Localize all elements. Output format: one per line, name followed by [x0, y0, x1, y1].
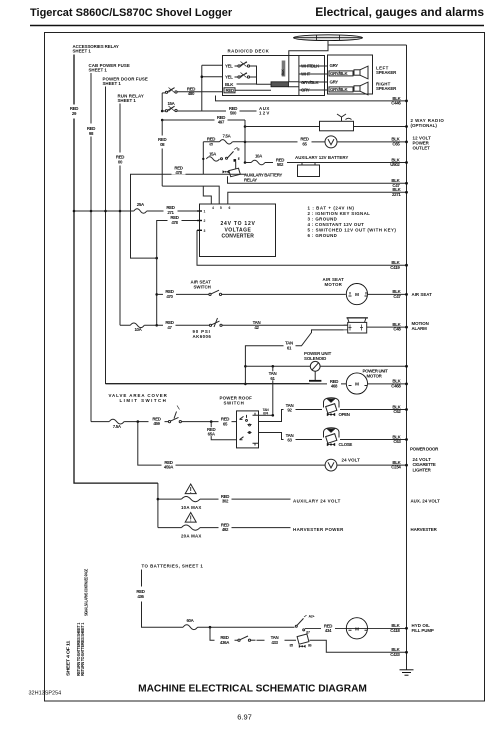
node RED 502 label [273, 158, 287, 167]
wire RED 436A switch branch [210, 627, 296, 640]
wire converter pin3 ground to bus BLK C419 [197, 230, 407, 265]
svg-text:87: 87 [306, 631, 310, 635]
svg-text:HARVESTER POWER: HARVESTER POWER [293, 527, 344, 532]
radio switch 1 [235, 62, 250, 68]
svg-text:492: 492 [222, 527, 229, 532]
svg-text:433: 433 [271, 640, 278, 645]
svg-text:GRY/BLK: GRY/BLK [330, 71, 349, 76]
power roof switch box [237, 411, 259, 448]
fuse 10A MAX [182, 497, 201, 502]
svg-text:1: 1 [204, 210, 206, 214]
wire motion alarm row [120, 324, 348, 326]
left speaker symbol [354, 66, 368, 79]
svg-text:12V: 12V [259, 111, 269, 116]
svg-text:ALARM: ALARM [412, 326, 428, 331]
switch row 2 (15A) [162, 101, 226, 112]
svg-text:15A: 15A [209, 152, 217, 157]
wire radio to speaker box 4 wires [289, 82, 299, 87]
node RED 500 label [227, 106, 240, 115]
svg-text:302: 302 [222, 499, 229, 504]
svg-text:436: 436 [137, 594, 144, 599]
svg-text:C48: C48 [393, 327, 401, 332]
power unit motor [346, 373, 367, 394]
switch row 1 (5A RED 480) [162, 88, 222, 94]
wire RED 468 row power unit motor [106, 383, 407, 385]
radio/cd deck box [223, 56, 325, 96]
svg-text:1 : BAT + (24V IN): 1 : BAT + (24V IN) [308, 206, 355, 211]
svg-text:470: 470 [166, 294, 173, 299]
svg-text:25A: 25A [137, 202, 145, 207]
close solenoid [324, 428, 340, 446]
fuse 20A MAX [182, 525, 201, 530]
wire power unit solenoid row [245, 365, 406, 367]
svg-text:GRY/BLK: GRY/BLK [330, 87, 349, 92]
svg-text:Tigercat S860C/LS870C Shovel L: Tigercat S860C/LS870C Shovel Logger [30, 7, 233, 19]
svg-text:480: 480 [188, 91, 195, 96]
wire 24V cigarette lighter row [138, 422, 407, 466]
svg-text:98: 98 [89, 131, 94, 136]
svg-text:RELAY: RELAY [244, 177, 257, 182]
svg-text:436A: 436A [220, 640, 230, 645]
node RED 478 label (pin2 side) [168, 216, 182, 225]
svg-text:459A: 459A [164, 465, 174, 470]
svg-text:C418: C418 [390, 628, 400, 633]
wire 2-way radio to bus [354, 126, 407, 128]
svg-text:32H13SP254: 32H13SP254 [29, 691, 62, 697]
converter left pin numbers 1 2 3 [197, 211, 202, 230]
svg-text:C419: C419 [390, 265, 400, 270]
header rule [30, 25, 484, 27]
svg-text:00: 00 [118, 160, 123, 165]
svg-text:MACHINE ELECTRICAL SCHEMATIC D: MACHINE ELECTRICAL SCHEMATIC DIAGRAM [138, 684, 367, 695]
wire roof switch close branch [259, 433, 407, 440]
svg-text:OUTLET: OUTLET [413, 146, 431, 151]
svg-text:SHEET 4 OF 11: SHEET 4 OF 11 [66, 640, 71, 676]
fuse 10A aux battery [251, 160, 265, 165]
wire RED 478 vertical to pin2 [157, 221, 200, 259]
svg-text:C433: C433 [390, 652, 400, 657]
wire TAN 61 from motion row down [245, 330, 343, 384]
wire relay coil to bus BLK C433 [310, 640, 407, 652]
pump switch [238, 636, 256, 641]
svg-text:5: 5 [220, 206, 222, 210]
wire RED 500 to AUX 12V [240, 110, 257, 112]
svg-text:C468: C468 [391, 384, 401, 389]
svg-text:RED: RED [207, 137, 215, 142]
radio switch 2 [235, 73, 250, 79]
svg-text:2 : IGNITION KEY SIGNAL: 2 : IGNITION KEY SIGNAL [308, 211, 371, 216]
svg-text:85: 85 [290, 643, 294, 647]
wire antenna feed to bus [328, 41, 407, 45]
svg-text:5 : SWITCHED 12V OUT (WITH KEY: 5 : SWITCHED 12V OUT (WITH KEY) [308, 228, 397, 233]
svg-text:RED: RED [226, 88, 234, 93]
valve limit switch [168, 406, 181, 423]
air seat switch [209, 290, 222, 295]
wire run relay RED 00 [119, 104, 121, 153]
open solenoid [324, 398, 340, 416]
fuse 10A motion [130, 323, 144, 328]
auxilary battery relay coil [223, 168, 241, 177]
svg-text:CONVERTER: CONVERTER [222, 234, 255, 240]
hyd oil fill pump motor [346, 618, 367, 639]
svg-text:29: 29 [72, 111, 77, 116]
svg-text:SHEET 1: SHEET 1 [118, 98, 137, 103]
svg-text:6 : GROUND: 6 : GROUND [308, 233, 337, 238]
wire converter outputs to radio feeder [162, 186, 219, 204]
svg-text:LIGHTER: LIGHTER [413, 467, 432, 472]
svg-text:6: 6 [229, 206, 231, 210]
svg-text:502: 502 [277, 162, 284, 167]
svg-text:10A: 10A [255, 153, 263, 158]
wire accessories relay vertical RED 29 [73, 55, 75, 105]
antenna [294, 35, 363, 41]
node junction dots row [73, 210, 76, 213]
wire RED 65A branch [211, 422, 236, 440]
svg-text:TO BATTERIES, SHEET 1: TO BATTERIES, SHEET 1 [142, 564, 204, 569]
hyd pump relay [295, 615, 406, 647]
svg-text:RETURN TO BATTERIES SHEET 1: RETURN TO BATTERIES SHEET 1 [80, 622, 85, 676]
svg-text:C47: C47 [392, 183, 400, 188]
wire YEL feeds from vertical 201 [202, 65, 223, 111]
node RED 65 label (roof) [219, 417, 232, 426]
cigarette lighter symbol [325, 459, 337, 471]
svg-text:POWER DOOR: POWER DOOR [410, 446, 439, 451]
wire TAN 61 vertical to roof switch [272, 366, 274, 415]
svg-text:2: 2 [204, 219, 206, 223]
wire cab power RED 98 [90, 73, 92, 124]
svg-text:61: 61 [287, 345, 292, 350]
svg-text:24 VOLT: 24 VOLT [342, 458, 361, 463]
2-way radio antenna mark [337, 114, 352, 121]
svg-text:24V TO 12V: 24V TO 12V [221, 221, 256, 227]
svg-text:10A: 10A [134, 327, 142, 332]
node RED 434 label [321, 624, 335, 633]
wire relay to bus BLK C47 [228, 176, 407, 183]
svg-text:(OPTIONAL): (OPTIONAL) [411, 123, 438, 128]
wire aux 24 volt feeder [157, 483, 159, 527]
air seat motor [346, 284, 367, 305]
node TAN 92 label [284, 403, 296, 412]
svg-text:4: 4 [212, 206, 214, 210]
wire radio internal to amp [235, 66, 271, 90]
svg-text:SWITCH: SWITCH [224, 401, 244, 406]
node RED 271 label [164, 206, 178, 215]
right speaker symbol [354, 82, 368, 95]
svg-text:U502: U502 [390, 162, 400, 167]
svg-text:65A: 65A [208, 432, 216, 437]
wire junction row to converter pin 1 [74, 210, 134, 212]
svg-text:SHEET 1: SHEET 1 [103, 81, 122, 86]
fuse 60A [183, 625, 197, 630]
wire harvester row [158, 527, 291, 529]
auxilary 12v battery symbol [298, 163, 320, 177]
svg-text:M: M [355, 626, 359, 631]
wire antenna into radio [289, 45, 328, 57]
svg-text:459: 459 [153, 421, 160, 426]
svg-text:A2+: A2+ [309, 614, 315, 618]
wire solenoid plunger [314, 371, 316, 381]
svg-text:AUXILARY 24 VOLT: AUXILARY 24 VOLT [293, 498, 341, 503]
wire battery feed RED 436 [142, 570, 295, 628]
svg-text:60A: 60A [186, 618, 194, 623]
pressure switch 90 PSI [209, 318, 222, 327]
svg-text:08: 08 [160, 142, 165, 147]
wire amp to antenna lead [288, 57, 290, 82]
radio input label RED boxed [224, 88, 235, 93]
2-way radio box [320, 121, 354, 131]
svg-text:VOLTAGE: VOLTAGE [225, 227, 252, 233]
warning triangle 1 [185, 484, 196, 494]
svg-text:468: 468 [331, 384, 338, 389]
radio antenna lead BLK vertical text [282, 61, 286, 77]
speaker label GRY/BLK 1 boxed [329, 71, 353, 76]
svg-text:3 : GROUND: 3 : GROUND [308, 217, 337, 222]
svg-text:497: 497 [218, 120, 225, 125]
svg-text:GRY: GRY [330, 80, 339, 85]
converter pin legend [308, 206, 397, 239]
wire air seat row RED 470 [157, 293, 407, 295]
wire vertical 156 down to air seat and motion rows [156, 258, 158, 325]
motion alarm device [344, 318, 368, 333]
speaker label GRY/BLK 2 boxed [329, 87, 353, 92]
svg-text:SHEET 1: SHEET 1 [73, 49, 92, 54]
svg-text:47: 47 [167, 325, 172, 330]
svg-text:AUXILARY 12V BATTERY: AUXILARY 12V BATTERY [295, 155, 348, 160]
node TAN 63 label [284, 433, 296, 442]
wire roof switch open branch [259, 410, 407, 422]
svg-text:2271: 2271 [392, 192, 401, 197]
svg-text:10A MAX: 10A MAX [181, 505, 201, 510]
svg-text:4 : CONSTANT 12V OUT: 4 : CONSTANT 12V OUT [308, 222, 365, 227]
svg-text:434: 434 [325, 628, 332, 633]
24V to 12V voltage converter box [200, 204, 276, 257]
svg-text:BLK: BLK [225, 82, 234, 87]
svg-text:CLOSE: CLOSE [339, 442, 353, 447]
speaker wiring box [328, 55, 373, 94]
svg-text:OPEN: OPEN [339, 412, 350, 417]
svg-text:SWITCH: SWITCH [194, 285, 211, 290]
svg-text:AIR SEAT: AIR SEAT [412, 292, 433, 297]
ground at bus bottom [400, 670, 414, 675]
svg-text:C234: C234 [391, 465, 401, 470]
svg-text:C47: C47 [393, 294, 401, 299]
wire distribution vertical x244.5 [244, 120, 246, 163]
wire valve area row RED 459 [91, 421, 237, 423]
svg-text:LIMIT SWITCH: LIMIT SWITCH [120, 398, 166, 403]
svg-text:M: M [355, 292, 359, 297]
svg-text:GRY: GRY [330, 63, 339, 68]
fuse 25A [134, 209, 147, 214]
svg-text:6.97: 6.97 [237, 713, 252, 722]
svg-text:Electrical, gauges and alarms: Electrical, gauges and alarms [315, 5, 484, 19]
svg-text:SPEAKER: SPEAKER [376, 70, 397, 75]
svg-text:7.5A: 7.5A [223, 134, 232, 139]
svg-text:M: M [355, 382, 359, 387]
node RED 478 label (relay side) [172, 166, 186, 175]
svg-text:15A: 15A [167, 101, 175, 106]
svg-text:B: B [237, 147, 240, 151]
svg-text:65: 65 [209, 142, 213, 146]
voltmeter 12V power outlet [325, 136, 337, 148]
svg-text:SPEAKER: SPEAKER [376, 86, 397, 91]
svg-text:MOTOR: MOTOR [325, 282, 343, 287]
svg-text:SHEET 1: SHEET 1 [89, 68, 108, 73]
wire aux 24 volt row [158, 498, 291, 500]
svg-text:MOTOR: MOTOR [367, 374, 383, 379]
power unit solenoid symbol [310, 361, 320, 371]
warning triangle 2 [185, 513, 196, 523]
svg-text:AK6006: AK6006 [193, 334, 212, 339]
svg-text:C63: C63 [393, 439, 401, 444]
svg-text:HARVESTER: HARVESTER [411, 527, 438, 532]
svg-text:FILL PUMP: FILL PUMP [412, 628, 434, 633]
ignition key cluster: fuse 15A + key switch [206, 147, 240, 168]
wire radio switch feeder vertical RED 08 [161, 120, 163, 186]
svg-text:478: 478 [175, 170, 182, 175]
wire voltmeter RED 65 [245, 141, 407, 143]
svg-text:SOLENOID: SOLENOID [304, 356, 326, 361]
svg-text:SIGNALS/ALARMS CONTINUED PAGE: SIGNALS/ALARMS CONTINUED PAGE [84, 569, 89, 616]
right bus vertical [406, 45, 408, 670]
wire aux battery row [245, 162, 407, 164]
wire to 2-way radio [245, 126, 320, 128]
svg-text:RADIO/CD DECK: RADIO/CD DECK [228, 49, 270, 54]
svg-text:20A MAX: 20A MAX [181, 534, 201, 539]
fuse 7.5A valve [109, 419, 124, 424]
svg-text:YEL: YEL [225, 75, 233, 80]
ignition key cluster: fuse 7.5A RED 65 [202, 142, 204, 175]
svg-text:E: E [238, 157, 240, 161]
wire converter pin6 ground to bus BLK 2271 [228, 192, 407, 204]
radio amp bar [271, 82, 289, 87]
svg-text:YEL: YEL [225, 64, 233, 69]
svg-text:500: 500 [230, 111, 237, 116]
svg-text:674: 674 [263, 412, 268, 416]
wire RED 478 from relay to converter routing [131, 174, 247, 258]
wire switch1 down [161, 93, 163, 111]
node RED 65A label [206, 427, 218, 436]
svg-text:C62: C62 [393, 409, 401, 414]
wire motion alarm to bus [367, 326, 407, 328]
wire roof switch to TAN61 junction [259, 414, 273, 416]
wire RED 497 [162, 119, 245, 121]
svg-text:478: 478 [171, 220, 178, 225]
svg-text:3: 3 [204, 229, 206, 233]
wire power door fuse vertical [106, 87, 310, 384]
svg-text:C446: C446 [391, 101, 401, 106]
svg-text:C65: C65 [392, 142, 400, 147]
svg-text:65: 65 [302, 142, 307, 147]
wire radio ground to bus BLK C446 [216, 96, 407, 101]
svg-text:7.5A: 7.5A [113, 424, 122, 429]
svg-text:AUX. 24 VOLT: AUX. 24 VOLT [411, 498, 441, 503]
schematic frame [45, 33, 485, 702]
node RED 468 label [327, 379, 341, 388]
svg-text:BLK: BLK [281, 69, 285, 76]
svg-text:86: 86 [308, 643, 312, 647]
